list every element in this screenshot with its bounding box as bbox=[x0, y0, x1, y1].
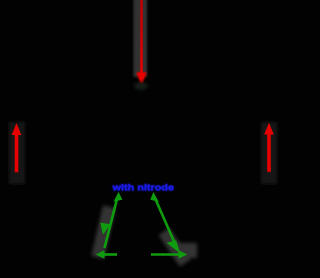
green leg arrow left reaction (down along leg) bbox=[100, 223, 110, 235]
gray rod (top center, behind red arrow) bbox=[134, 0, 148, 77]
gray leg smudge right bbox=[159, 228, 197, 267]
green horizontal arrow right (pointing right) bbox=[151, 250, 187, 259]
red arrow F-down (top center, pointing down) bbox=[138, 0, 146, 83]
green leg arrow left (up along leg) bbox=[105, 192, 123, 248]
green leg arrow right (up along leg) bbox=[150, 192, 178, 251]
green leg arrow right reaction (down along leg) bbox=[167, 240, 180, 253]
faint artifact below center arrowhead bbox=[134, 82, 148, 90]
red arrow F-up right (pointing up) bbox=[264, 123, 274, 172]
green horizontal arrow left (pointing left) bbox=[96, 250, 117, 259]
gray leg smudge left bbox=[91, 205, 115, 259]
faint halo left arrow bbox=[9, 122, 25, 184]
faint halo right arrow bbox=[261, 122, 277, 184]
svg-text:with nitrode: with nitrode bbox=[111, 183, 174, 193]
red arrow F-up left (pointing up) bbox=[12, 123, 22, 172]
